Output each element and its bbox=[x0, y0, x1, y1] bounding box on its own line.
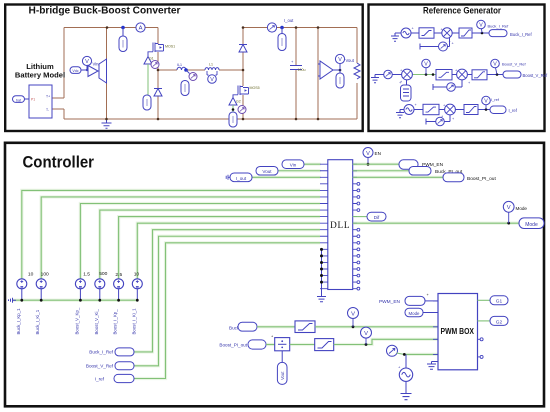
wire PWM_EN bbox=[353, 163, 399, 165]
svg-text:L1: L1 bbox=[209, 63, 213, 67]
wire battery negative path bbox=[50, 109, 64, 119]
svg-text:DLL: DLL bbox=[330, 220, 350, 230]
green link row2 bbox=[413, 74, 437, 76]
ground row2 bbox=[371, 75, 379, 83]
svg-text:500: 500 bbox=[99, 271, 107, 277]
wire G1 bbox=[478, 299, 491, 301]
wire carrier to PWM pin5 bbox=[397, 353, 439, 354]
source Buck_I_Kp bbox=[17, 279, 27, 289]
inductor L1 bbox=[205, 68, 219, 70]
panel frame: Controller bbox=[5, 143, 544, 407]
wire I_out input bbox=[252, 176, 321, 178]
voltmeter Vin bbox=[82, 56, 91, 65]
wire Boost_V_Ref to DLL bbox=[134, 236, 320, 366]
output port G1 bbox=[490, 296, 508, 305]
input port Vout bbox=[256, 166, 278, 175]
svg-text:I_ref: I_ref bbox=[491, 97, 500, 102]
PWM BOX left pin stubs bbox=[433, 301, 438, 355]
input port Mode bbox=[405, 308, 423, 317]
source Boost_I_Kp bbox=[114, 279, 124, 289]
row 1 wires bbox=[395, 32, 489, 34]
junction + voltmeter Boost_V_Ref bbox=[496, 73, 499, 76]
battery model block B1 bbox=[29, 85, 52, 118]
wire Mode bbox=[353, 222, 519, 224]
voltmeter across L1 bbox=[207, 71, 217, 75]
wire gain bottom bus bbox=[13, 299, 138, 301]
PWM BOX U2 bbox=[438, 294, 478, 370]
svg-text:Boost_I_Ki_1: Boost_I_Ki_1 bbox=[131, 308, 136, 335]
voltage sensor op-amp bbox=[318, 61, 340, 79]
svg-text:EN: EN bbox=[375, 151, 381, 156]
capsule inner marks bbox=[123, 38, 340, 123]
wire load branch bbox=[356, 28, 358, 120]
junction bbox=[481, 32, 484, 35]
svg-text:10: 10 bbox=[28, 272, 34, 278]
svg-text:V: V bbox=[479, 23, 483, 29]
wire top-left rail bbox=[64, 27, 158, 29]
output port Boost_V_Ref bbox=[503, 71, 521, 78]
svg-text:1.5: 1.5 bbox=[83, 272, 90, 278]
voltmeter Mode bbox=[503, 201, 514, 212]
wire to divider bbox=[266, 344, 275, 346]
svg-text:V: V bbox=[364, 331, 368, 337]
wire G2 bbox=[478, 320, 491, 322]
wire limiter to PWM pin bbox=[315, 326, 438, 328]
junction bbox=[232, 108, 235, 111]
svg-text:V: V bbox=[484, 99, 488, 105]
wire divider to limiter bbox=[290, 344, 315, 346]
probe capsule M on top rail bbox=[121, 26, 125, 30]
wire gain6 to DLL bbox=[137, 223, 320, 279]
svg-text:Mode: Mode bbox=[516, 206, 528, 211]
svg-text:G2: G2 bbox=[236, 100, 241, 104]
svg-text:I_out: I_out bbox=[236, 176, 247, 181]
svg-text:V: V bbox=[338, 57, 342, 63]
svg-text:Mode: Mode bbox=[409, 311, 421, 316]
svg-text:G1: G1 bbox=[496, 299, 503, 305]
voltmeter EN bbox=[363, 148, 373, 158]
svg-text:V: V bbox=[366, 151, 370, 157]
feedback row1 bbox=[420, 38, 450, 50]
wire Dif bbox=[353, 216, 367, 218]
svg-text:G1: G1 bbox=[149, 57, 154, 61]
ground (gain bus) bbox=[9, 298, 17, 303]
gain stubs to bus bbox=[22, 289, 138, 300]
current sensor IL1 bbox=[177, 67, 186, 70]
diode D2 bbox=[154, 89, 162, 97]
svg-text:Vin: Vin bbox=[93, 62, 100, 67]
summer row2 b bbox=[457, 69, 468, 80]
svg-text:2.5: 2.5 bbox=[115, 272, 122, 278]
output port Dif bbox=[367, 212, 386, 221]
wire limiter to PWM pin4 bbox=[334, 339, 438, 344]
DLL block U1 bbox=[328, 160, 353, 290]
output port Buck_PI_out bbox=[409, 166, 431, 175]
svg-text:Boost_V_Ref: Boost_V_Ref bbox=[86, 364, 114, 369]
svg-text:Boost_PI_out: Boost_PI_out bbox=[467, 176, 496, 182]
limiter row1 bbox=[459, 28, 472, 38]
wire halos bbox=[13, 164, 519, 378]
probe capsule Vout bbox=[339, 70, 341, 73]
svg-text:T-: T- bbox=[46, 108, 49, 112]
svg-text:V: V bbox=[507, 205, 511, 211]
wire gain3 to DLL bbox=[80, 204, 320, 279]
source Boost_V_Kp bbox=[75, 279, 85, 289]
svg-text:T+: T+ bbox=[46, 95, 50, 99]
voltmeter Vout bbox=[335, 54, 344, 63]
panel frame: Reference Generator bbox=[369, 5, 545, 132]
sine source carrier bbox=[405, 354, 407, 368]
source Boost_I_Ki bbox=[132, 279, 142, 289]
feedback row3 bbox=[426, 115, 450, 125]
junction + voltmeter I_ref bbox=[485, 108, 488, 111]
svg-text:PWM BOX: PWM BOX bbox=[441, 326, 475, 336]
svg-text:V: V bbox=[424, 62, 428, 68]
svg-text:I_ref: I_ref bbox=[509, 108, 518, 113]
ammeter A1 bbox=[136, 23, 145, 32]
svg-text:MOS1: MOS1 bbox=[165, 45, 175, 49]
svg-text:Vout: Vout bbox=[262, 169, 272, 174]
probe capsule I_out bbox=[281, 28, 283, 34]
svg-text:Buck_I_Ref: Buck_I_Ref bbox=[510, 32, 532, 37]
junction dots bbox=[105, 26, 319, 120]
wire Boost_PI_out bbox=[353, 176, 443, 178]
svg-text:Vin: Vin bbox=[290, 163, 297, 168]
svg-text:Boost_V_Ki_: Boost_V_Ki_ bbox=[94, 309, 99, 335]
svg-text:IL1: IL1 bbox=[177, 63, 182, 67]
probe carrier bbox=[387, 345, 398, 356]
limiter boost bbox=[315, 339, 334, 351]
ammeter I_out bbox=[267, 23, 276, 32]
svg-text:Boost_V_Ref: Boost_V_Ref bbox=[523, 73, 549, 78]
ground row3 bbox=[396, 110, 404, 118]
svg-text:Boost_V_Kp_: Boost_V_Kp_ bbox=[74, 307, 79, 334]
svg-text:Mode: Mode bbox=[525, 222, 538, 228]
gain sources bbox=[17, 279, 143, 289]
gate signal wire (green) bbox=[147, 64, 149, 95]
summer row1 bbox=[442, 28, 452, 38]
summer row3 bbox=[445, 104, 456, 115]
ground DLL bbox=[317, 294, 326, 302]
svg-text:I_ref: I_ref bbox=[95, 377, 105, 382]
wire right bridge vertical bbox=[242, 28, 244, 120]
svg-text:V: V bbox=[351, 311, 355, 317]
output port Mode bbox=[519, 218, 544, 229]
wire gain4 to DLL bbox=[100, 210, 320, 279]
svg-text:I_out: I_out bbox=[284, 18, 294, 23]
rotated labels bbox=[16, 307, 137, 334]
gate driver G1 bbox=[144, 57, 152, 65]
svg-text:Buck_I_Ref: Buck_I_Ref bbox=[488, 23, 510, 28]
limiter buck bbox=[295, 321, 315, 333]
probe capsule G1 bbox=[143, 95, 151, 110]
input port Vin bbox=[282, 160, 304, 169]
svg-text:Battery Model: Battery Model bbox=[15, 71, 65, 80]
svg-text:V: V bbox=[493, 62, 497, 68]
junction + voltmeter row2 bbox=[425, 73, 428, 76]
wire bottom rail bbox=[64, 118, 357, 120]
svg-text:Vout: Vout bbox=[346, 58, 355, 63]
svg-text:Boost_I_Kp_: Boost_I_Kp_ bbox=[113, 309, 118, 335]
wire top-right rail bbox=[243, 27, 357, 29]
wire sense branch bbox=[317, 28, 319, 120]
ground row1 bbox=[391, 33, 399, 41]
panel frame: H-bridge Buck-Boost Converter bbox=[5, 5, 363, 132]
mosfet MOS1 bbox=[148, 43, 164, 57]
limiter row3 bbox=[464, 105, 478, 115]
wire capacitor branch bbox=[295, 28, 297, 120]
input port PWM_EN bbox=[405, 296, 425, 305]
svg-text:Buck_I_Ki_1: Buck_I_Ki_1 bbox=[35, 309, 40, 334]
source Buck_I_Ki bbox=[36, 279, 46, 289]
svg-text:PWM_EN: PWM_EN bbox=[379, 299, 401, 305]
mosfet MOS5 bbox=[233, 86, 249, 98]
input port I_out bbox=[230, 173, 252, 182]
svg-text:V: V bbox=[210, 77, 214, 83]
wire Vout input bbox=[278, 170, 321, 172]
controlled source E1 (trapezoid) bbox=[98, 59, 107, 83]
source Vdc bbox=[70, 67, 81, 74]
DLL left pins bbox=[320, 164, 328, 288]
svg-text:Vdc: Vdc bbox=[72, 69, 78, 73]
row 3 wires bbox=[400, 109, 490, 111]
wire phase node A horizontal bbox=[158, 69, 243, 71]
capacitor C1 100u bbox=[290, 66, 302, 70]
wire Buck_PI_out bbox=[353, 170, 409, 172]
ground PWM BOX bbox=[427, 362, 438, 370]
wire left vertical bbox=[50, 28, 64, 99]
integrator row2 bbox=[436, 70, 452, 80]
svg-text:100u: 100u bbox=[298, 68, 306, 72]
svg-text:Buck_I_Kp_1: Buck_I_Kp_1 bbox=[16, 308, 21, 335]
output port I_ref bbox=[490, 106, 506, 114]
voltmeter buck duty bbox=[348, 308, 359, 319]
wire to limiter bbox=[257, 326, 295, 328]
svg-text:Dif: Dif bbox=[374, 215, 380, 220]
svg-text:V: V bbox=[85, 59, 89, 65]
amplifier triangle bbox=[81, 66, 98, 77]
port marker bbox=[226, 175, 230, 180]
input port soc bbox=[13, 96, 30, 103]
svg-text:Boost_V_Ref: Boost_V_Ref bbox=[502, 62, 526, 67]
probe IL1 bbox=[189, 73, 197, 81]
ground (main) bbox=[102, 119, 112, 128]
feedback row2 bbox=[433, 80, 462, 90]
output port PWM_EN bbox=[399, 160, 418, 169]
svg-text:A: A bbox=[139, 26, 143, 32]
voltmeter boost duty bbox=[361, 327, 372, 338]
svg-text:Boost_PI_out: Boost_PI_out bbox=[219, 343, 247, 348]
probe G2 bbox=[238, 106, 246, 114]
PWM BOX open pins bbox=[478, 338, 484, 359]
gate signal wire G2 bbox=[232, 105, 234, 112]
wire gain1 to DLL bbox=[22, 190, 320, 278]
wire sine to ground bbox=[405, 381, 407, 393]
integrator row3 bbox=[423, 104, 439, 114]
svg-text:Buck_I_Ref: Buck_I_Ref bbox=[89, 350, 113, 355]
wire mid vertical to ground bbox=[106, 28, 108, 120]
svg-text:Reference Generator: Reference Generator bbox=[423, 5, 501, 16]
wire Buck_I_Ref to DLL bbox=[134, 230, 320, 352]
svg-text:Vout: Vout bbox=[280, 371, 285, 380]
limiter row2 bbox=[472, 70, 487, 80]
gain source polarity marks bbox=[20, 280, 138, 288]
svg-text:MOS5: MOS5 bbox=[250, 86, 260, 90]
voltmeter Buck_I_Ref bbox=[477, 20, 486, 29]
row 2 wires bbox=[379, 74, 503, 76]
sine source row3 bbox=[404, 105, 414, 115]
sine source VSIN1 bbox=[401, 28, 411, 38]
svg-text:10: 10 bbox=[134, 272, 140, 278]
wire I_ref to DLL bbox=[134, 243, 320, 379]
output port G2 bbox=[490, 316, 508, 325]
wire MOS1 leg bbox=[157, 28, 159, 120]
probe capsule IL1 bbox=[181, 81, 189, 96]
diode D3 bbox=[239, 45, 247, 53]
svg-text:Controller: Controller bbox=[23, 154, 95, 172]
DLL right pins bbox=[353, 164, 360, 290]
wire gain2 to DLL bbox=[41, 197, 320, 279]
probe capsule Vout (divider) bbox=[281, 351, 283, 363]
output port Boost_PI_out bbox=[443, 173, 464, 182]
output port Buck_I_Ref bbox=[489, 30, 507, 37]
battery ref row2 bbox=[406, 80, 408, 85]
svg-text:H-bridge Buck-Boost Converter: H-bridge Buck-Boost Converter bbox=[29, 5, 181, 16]
source Boost_V_Ki bbox=[95, 279, 105, 289]
bus junction dots bbox=[20, 299, 138, 302]
gate driver G2 bbox=[229, 98, 237, 106]
resistor load R1 bbox=[354, 63, 360, 79]
probe capsule G2 bbox=[229, 112, 237, 127]
wire Vin input bbox=[304, 163, 321, 165]
probe row2 bbox=[384, 70, 393, 79]
divider block bbox=[275, 338, 290, 351]
green bus wires to DLL bbox=[13, 164, 321, 378]
svg-text:100: 100 bbox=[41, 272, 49, 278]
svg-text:G2: G2 bbox=[496, 319, 503, 325]
probe G1 bbox=[151, 61, 159, 69]
DLL ground bus bbox=[321, 249, 323, 294]
wire gain5 to DLL bbox=[119, 217, 320, 279]
summer row2 a bbox=[402, 69, 413, 80]
integrator block row1 bbox=[419, 28, 434, 38]
svg-text:bat: bat bbox=[16, 98, 21, 102]
ground carrier bbox=[401, 394, 412, 400]
svg-text:P1: P1 bbox=[31, 98, 35, 102]
